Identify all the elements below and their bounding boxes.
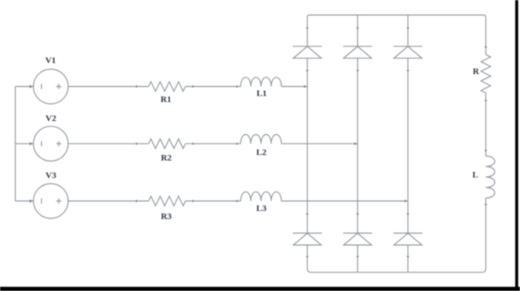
source V1 [33,69,68,104]
diode D2 top [343,46,372,58]
wire R2 to L2 [185,143,240,145]
pin tick leg x357.6 y256.5 [357,256,359,258]
svg-text:R: R [473,66,480,76]
svg-text:V2: V2 [46,113,57,123]
wire leg3 bottom [407,245,409,272]
pin tick leg x407.9 y70.5 [407,70,409,72]
svg-text:R1: R1 [161,94,172,104]
pin tick load a [485,46,487,48]
diode D3 top [393,46,422,58]
pin tick row2 a [136,143,138,145]
svg-text:R3: R3 [161,211,172,221]
resistor R1 [149,82,186,92]
pin tick load b [485,100,487,102]
wire leg2 middle [357,58,359,233]
wire R1 to L1 [185,86,240,88]
svg-text:V1: V1 [45,55,56,65]
wire top rail [307,15,486,55]
wire R3 to L3 [185,200,240,202]
pin arrow V3 [30,199,34,202]
pin arrow V2 [30,142,34,145]
source V2 [33,126,68,161]
svg-text:R2: R2 [161,153,172,163]
svg-text:V3: V3 [46,170,57,180]
diode D5 bottom [343,233,372,245]
pin tick row1 c [236,85,238,87]
junction arrow row3 [405,200,408,203]
pin tick leg x407.9 y256.5 [407,256,409,258]
pin tick leg x357.6 y28 [357,27,359,29]
wire L1 to leg1 [281,86,307,88]
wire leg2 top [357,15,359,46]
wire V2 to R2 [68,143,148,145]
pin arrow V1 [30,85,34,88]
pin tick row3 c [236,200,238,202]
pin tick row2 c [236,143,238,145]
svg-text:L: L [472,169,478,179]
pin tick leg x357.6 y214 [357,213,359,215]
wire leg1 middle [306,58,308,233]
pin tick row1 b [192,85,194,87]
pin tick leg x307.3 y70.5 [306,70,308,72]
inductor L2 [241,134,282,143]
wire L2 to leg2 [281,143,357,145]
wire V1 to R1 [68,86,148,88]
resistor R2 [149,139,186,149]
diode D1 top [293,46,322,58]
source V3 [33,184,68,219]
svg-text:L2: L2 [256,147,267,157]
wire left bus [14,87,16,202]
pin tick row2 b [192,143,194,145]
wire load bottom [482,198,486,272]
wire leg1 bottom [307,245,311,272]
wire stub to V3 [15,200,33,202]
inductor L1 [241,77,282,86]
inductor L3 [241,192,282,201]
wire leg3 top [407,15,409,46]
wire leg2 bottom [357,245,359,272]
diode D4 bottom [293,233,322,245]
pin tick leg x407.9 y28 [407,27,409,29]
resistor R load [481,55,491,93]
wire load middle [485,93,487,156]
diode D6 bottom [393,233,422,245]
wire L3 to leg3 [281,200,408,202]
svg-text:L1: L1 [257,88,267,98]
pin tick row3 a [136,200,138,202]
wire stub to V2 [15,143,33,145]
pin tick load d [485,204,487,206]
junction arrow row1 [304,85,307,88]
svg-text:L3: L3 [256,203,267,213]
junction arrow row2 [354,142,357,145]
wire leg3 middle [407,58,409,233]
pin tick row3 b [192,200,194,202]
resistor R3 [149,196,186,206]
pin tick leg x307.3 y214 [306,213,308,215]
pin tick load c [485,150,487,152]
wire bottom rail [311,271,483,273]
wire stub to V1 [15,86,33,88]
pin tick leg x407.9 y214 [407,213,409,215]
pin tick row1 a [136,85,138,87]
pin tick leg x357.6 y70.5 [357,70,359,72]
wire V3 to R3 [68,200,148,202]
inductor L load [486,156,495,198]
pin tick leg x307.3 y28 [306,27,308,29]
pin tick leg x307.3 y256.5 [306,256,308,258]
